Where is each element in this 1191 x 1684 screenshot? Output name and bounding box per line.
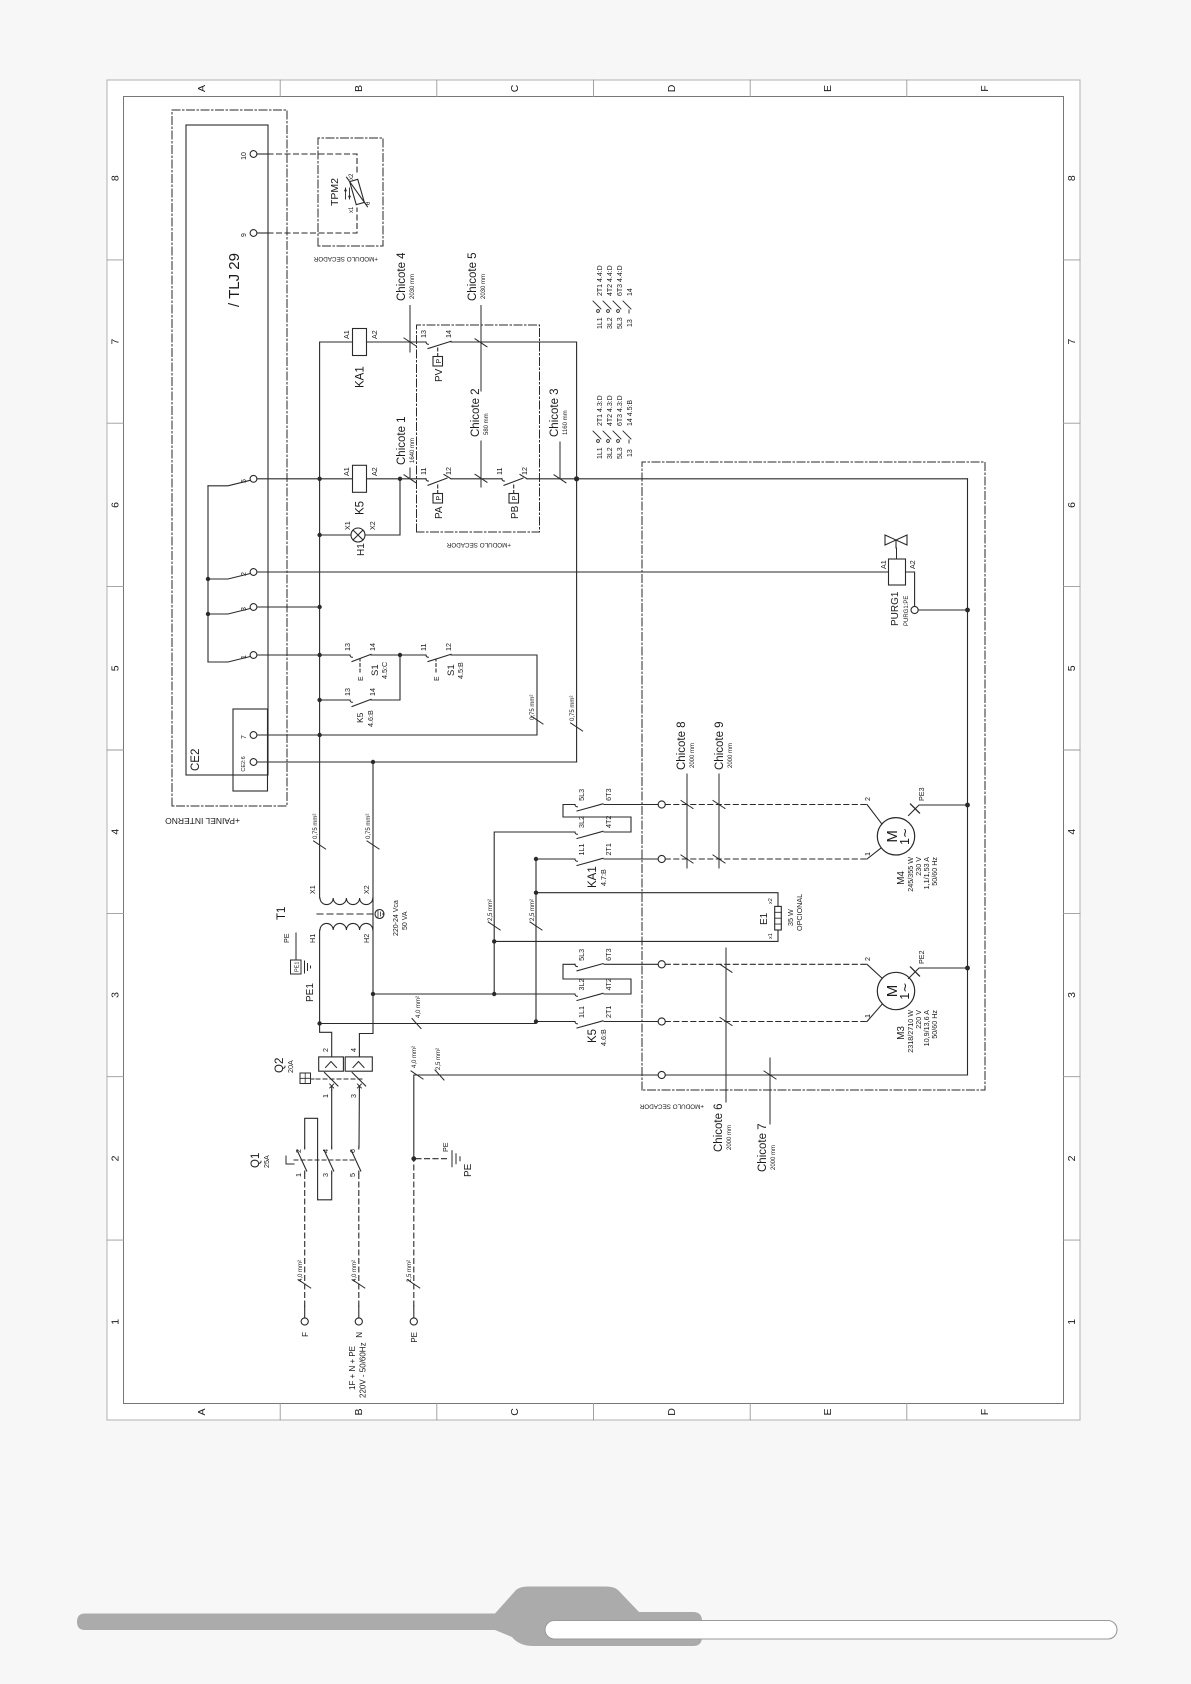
- svg-text:A1: A1: [342, 330, 351, 339]
- svg-text:13: 13: [343, 643, 352, 651]
- node rail junction K5 rung: [317, 477, 321, 481]
- svg-text:+PAINEL INTERNO: +PAINEL INTERNO: [165, 816, 240, 826]
- switch Q1 pole C contact: [351, 1147, 361, 1173]
- wire terminal 3 drop: [257, 606, 320, 608]
- svg-text:P: P: [510, 496, 519, 501]
- svg-text:3: 3: [110, 992, 122, 998]
- svg-text:PURG1: PURG1: [890, 591, 901, 626]
- node PE M4: [965, 803, 970, 808]
- svg-text:3: 3: [321, 1173, 330, 1177]
- svg-text:1L1: 1L1: [577, 1006, 586, 1018]
- svg-text:6T3 4.3:D: 6T3 4.3:D: [617, 395, 624, 426]
- breaker Q2 thermal box pole2: [345, 1057, 372, 1071]
- chicote 4 leader: [404, 306, 416, 353]
- wire terminal 1 drop: [257, 654, 320, 656]
- svg-text:A: A: [196, 85, 208, 92]
- svg-text:KA1: KA1: [355, 366, 367, 388]
- wire gauge 0,75mm2 S1 branch with slash: [531, 716, 543, 724]
- svg-text:4,0 mm²: 4,0 mm²: [416, 996, 422, 1018]
- svg-text:/ TLJ 29: / TLJ 29: [226, 253, 243, 307]
- svg-text:1L1: 1L1: [577, 844, 586, 856]
- wire neutral branch to KA1 pole2: [494, 832, 567, 994]
- svg-text:Chicote 1: Chicote 1: [396, 416, 408, 465]
- svg-text:25A: 25A: [262, 1155, 271, 1168]
- node K5 aux stub: [317, 698, 321, 702]
- svg-text:4T2 4.3:D: 4T2 4.3:D: [607, 395, 614, 426]
- wire Q1 poleC output to Q2: [358, 1090, 360, 1147]
- wire stub M3 pin2: [867, 964, 882, 978]
- wire PE feeder: [414, 1075, 658, 1159]
- dryer module dash-dot box: [642, 462, 985, 1090]
- svg-text:2T1: 2T1: [604, 1006, 613, 1018]
- svg-text:13: 13: [419, 330, 428, 338]
- svg-text:Chicote 8: Chicote 8: [676, 721, 688, 770]
- contact PB arm: [502, 475, 527, 486]
- svg-text:4,0 mm²: 4,0 mm²: [298, 1260, 304, 1282]
- wire K5 rung: [320, 478, 968, 480]
- svg-text:4,0 mm²: 4,0 mm²: [352, 1260, 358, 1282]
- svg-text:x2: x2: [768, 898, 774, 904]
- switch arm terminal 1: [208, 657, 250, 663]
- coil K5: [353, 465, 367, 492]
- svg-text:2: 2: [110, 1155, 122, 1161]
- contact PV arm: [426, 341, 451, 348]
- thermal symbol pole1: [326, 1062, 337, 1068]
- svg-text:PE: PE: [282, 933, 291, 943]
- svg-text:12: 12: [520, 467, 529, 475]
- svg-text:2: 2: [1066, 1155, 1078, 1161]
- svg-text:1L1: 1L1: [597, 447, 604, 459]
- terminal CE2:1: [250, 652, 257, 659]
- chicote 8 leader: [681, 774, 693, 868]
- svg-text:A1: A1: [342, 467, 351, 476]
- contactor KA1 power pole1: [536, 858, 658, 865]
- transformer T1 core dashed: [317, 913, 373, 915]
- svg-text:2,5 mm²: 2,5 mm²: [488, 899, 494, 921]
- svg-text:20A: 20A: [286, 1060, 295, 1073]
- svg-text:H1: H1: [356, 543, 367, 556]
- svg-text:1: 1: [321, 1094, 330, 1098]
- svg-text:2T1 4.3:D: 2T1 4.3:D: [597, 395, 604, 426]
- heater E1 wires: [494, 930, 778, 941]
- svg-text:0,75 mm²: 0,75 mm²: [570, 696, 576, 721]
- wire stub M4 pin2: [867, 805, 882, 824]
- svg-text:5: 5: [110, 665, 122, 671]
- svg-text:50/60 Hz: 50/60 Hz: [930, 857, 939, 886]
- svg-text:2,5 mm²: 2,5 mm²: [530, 899, 536, 921]
- svg-text:11: 11: [419, 468, 428, 475]
- terminal F input: [301, 1318, 308, 1325]
- svg-text:P: P: [434, 496, 443, 501]
- wire dashed terminal 10 to TPM2: [268, 154, 357, 175]
- decorative gray swoosh bar bottom: [77, 1587, 702, 1647]
- ground PE branch dashed: [416, 1158, 448, 1160]
- node phase E1 x2 tap: [534, 891, 538, 895]
- svg-text:5L3: 5L3: [577, 949, 586, 961]
- node K5 A2 junction: [398, 477, 402, 481]
- chicote 2/5 leader: [475, 306, 487, 488]
- node PURG1 PE on bus: [965, 608, 970, 613]
- svg-text:1L1: 1L1: [597, 317, 604, 329]
- svg-text:PB: PB: [510, 505, 521, 519]
- jumper KA1 pole2-pole3: [563, 805, 631, 833]
- svg-text:3L2: 3L2: [577, 816, 586, 828]
- wire gauge 4,0mm2 N with slash: [353, 1280, 365, 1288]
- terminal sub-box CE2:6/7: [233, 709, 268, 791]
- node PE junction: [411, 1156, 416, 1161]
- svg-text:1: 1: [241, 655, 248, 659]
- wire terminal 5 drop: [257, 478, 320, 480]
- node rail junction t7: [317, 733, 321, 737]
- svg-text:35 W: 35 W: [786, 909, 795, 926]
- wire Q1 poleB output to Q2: [331, 1090, 333, 1147]
- terminal N input: [355, 1318, 362, 1325]
- wire PE bus: [967, 479, 969, 1075]
- wire gauge 2,5mm2 PE with slash: [408, 1280, 420, 1288]
- svg-text:KA1: KA1: [587, 866, 599, 888]
- coil KA1: [353, 329, 367, 356]
- switch arm terminal 2: [208, 574, 250, 580]
- wire terminal 2 rung to PURG1: [257, 571, 889, 573]
- svg-text:1: 1: [1066, 1319, 1078, 1325]
- connector circle M3 pin2: [658, 961, 665, 968]
- svg-text:50/60 Hz: 50/60 Hz: [930, 1010, 939, 1039]
- svg-text:6T3: 6T3: [604, 948, 613, 960]
- node S1 lower junction: [398, 653, 402, 657]
- pressure switch P box PV: [433, 357, 443, 367]
- wire 0V bottom rail: [452, 342, 577, 762]
- node rail-PE bond junction: [574, 476, 579, 481]
- breaker Q2 trip linkage dashed: [316, 1078, 363, 1080]
- rotated landscape content: [107, 80, 1080, 1420]
- wire gauge 2,5mm2 PE feeder with slash: [435, 1070, 444, 1080]
- motor M3: [877, 972, 914, 1009]
- svg-text:Chicote 4: Chicote 4: [396, 252, 408, 301]
- node phase KA1 pole1: [534, 857, 538, 861]
- svg-text:14: 14: [627, 288, 634, 296]
- svg-text:6: 6: [1066, 502, 1078, 508]
- svg-text:11: 11: [419, 644, 428, 651]
- thermostat arrows: [344, 188, 351, 199]
- svg-text:2,5 mm²: 2,5 mm²: [436, 1048, 442, 1070]
- pushbutton module dash-dot box: [417, 325, 540, 532]
- contactor K5 power pole3: [575, 964, 658, 971]
- svg-text:4T2: 4T2: [604, 978, 613, 990]
- svg-text:4: 4: [321, 1149, 330, 1153]
- svg-text:580 mm: 580 mm: [484, 413, 490, 435]
- node switch bus junction t2: [206, 577, 210, 581]
- svg-text:1: 1: [863, 1014, 872, 1018]
- switch Q1 linkage dashed: [294, 1159, 357, 1161]
- svg-text:4.7:B: 4.7:B: [599, 869, 608, 886]
- wire stub M3 pin1: [867, 1004, 882, 1021]
- svg-text:1: 1: [294, 1173, 303, 1177]
- wire gauge 2,5mm2 neutral branch with slash: [488, 922, 500, 930]
- svg-text:13: 13: [343, 688, 352, 696]
- svg-text:3L2: 3L2: [577, 979, 586, 991]
- chicote 6 leader: [720, 948, 732, 1102]
- svg-text:10: 10: [241, 152, 248, 160]
- terminal CE2:5: [250, 475, 257, 482]
- svg-text:2: 2: [294, 1149, 303, 1153]
- svg-text:14: 14: [444, 330, 453, 338]
- switch Q1 pole A contact: [297, 1147, 307, 1173]
- svg-text:D: D: [666, 1408, 678, 1416]
- contact S1 13/14 wires: [320, 655, 537, 735]
- pressure switch P box PB: [509, 494, 519, 504]
- svg-text:1640 mm: 1640 mm: [410, 438, 416, 463]
- svg-text:3: 3: [241, 607, 248, 611]
- svg-text:4: 4: [1066, 829, 1078, 835]
- wire neutral common X2-H2-CE2:6: [372, 762, 374, 994]
- node switch bus junction t3: [206, 612, 210, 616]
- wire PURG1 PE drop: [918, 609, 967, 611]
- terminal CE2:2: [250, 569, 257, 576]
- svg-text:2: 2: [321, 1048, 330, 1052]
- wire PE stub M4: [909, 805, 968, 816]
- wire phase horizontal feed: [535, 859, 537, 1024]
- breaker Q2 actuator box: [300, 1073, 311, 1084]
- svg-text:E: E: [822, 1408, 834, 1415]
- wire terminal 7 drop: [257, 734, 320, 736]
- svg-text:4T2 4.4:D: 4T2 4.4:D: [607, 265, 614, 296]
- svg-text:6T3 4.4:D: 6T3 4.4:D: [617, 265, 624, 296]
- wire gauge 4,0mm2 F with slash: [299, 1280, 311, 1288]
- svg-text:2: 2: [863, 797, 872, 801]
- svg-text:11: 11: [495, 468, 504, 475]
- svg-text:X2: X2: [368, 521, 377, 530]
- node neutral at CE2:6 drop: [371, 760, 375, 764]
- jumper K5 pole2-pole3: [563, 964, 631, 994]
- svg-text:PA: PA: [434, 506, 445, 519]
- wire phase H1 feed: [319, 930, 321, 1024]
- svg-text:4.5:B: 4.5:B: [456, 662, 465, 679]
- svg-text:A2: A2: [370, 467, 379, 476]
- svg-text:D: D: [666, 84, 678, 92]
- contact S1 13/14 arm: [350, 654, 371, 661]
- svg-text:2,5 mm²: 2,5 mm²: [407, 1260, 413, 1282]
- svg-text:A2: A2: [370, 330, 379, 339]
- wire PE stub M3: [909, 968, 968, 979]
- frame row dividers left band: [107, 80, 1080, 1420]
- svg-text:4: 4: [349, 1048, 358, 1052]
- thermostat TPM2 body: [347, 174, 368, 210]
- svg-text:12: 12: [444, 467, 453, 475]
- svg-text:12: 12: [444, 643, 453, 651]
- breaker Q2 contact pole1: [325, 1073, 339, 1091]
- svg-text:PE1: PE1: [305, 983, 316, 1002]
- breaker Q2 contact pole2: [352, 1073, 366, 1091]
- contact PA arm: [426, 475, 451, 486]
- wire neutral drop to K5 pole2: [373, 993, 567, 995]
- switch arm terminal 5: [208, 480, 250, 486]
- wire Q2 pin2 to phase node: [320, 1024, 332, 1057]
- svg-text:x1: x1: [349, 206, 355, 213]
- svg-text:1: 1: [863, 852, 872, 856]
- contactor KA1 power pole3: [575, 804, 658, 811]
- svg-text:K5: K5: [355, 501, 367, 515]
- frame column numbers 1-8: [110, 175, 1079, 1325]
- svg-text:1∼: 1∼: [898, 828, 912, 845]
- terminal CE2:3: [250, 604, 257, 611]
- svg-text:3: 3: [1066, 992, 1078, 998]
- switch arm terminal 3: [208, 609, 250, 615]
- svg-text:3L2: 3L2: [607, 317, 614, 329]
- svg-text:2T1 4.4:D: 2T1 4.4:D: [597, 265, 604, 296]
- svg-text:14: 14: [368, 688, 377, 696]
- terminal strip CE2 box: [186, 125, 268, 775]
- svg-text:4,0 mm²: 4,0 mm²: [412, 1046, 418, 1068]
- terminal CE2:7: [250, 732, 257, 739]
- svg-text:+MODULO SECADOR: +MODULO SECADOR: [639, 1103, 704, 1110]
- heater E1 element: [775, 906, 782, 930]
- label M3 data: [896, 1010, 939, 1053]
- svg-text:T1: T1: [276, 907, 288, 920]
- svg-text:PE: PE: [441, 1142, 450, 1152]
- wire Q1 poleA to poleB series link: [305, 1118, 332, 1200]
- contactor K5 power pole1: [536, 1021, 658, 1028]
- thermal symbol pole2: [353, 1062, 364, 1068]
- wire dashed M3 pin1: [665, 1021, 867, 1023]
- svg-text:PE3: PE3: [917, 787, 926, 801]
- svg-text:0,75 mm²: 0,75 mm²: [313, 814, 319, 839]
- contact K5 aux arm: [350, 699, 371, 706]
- svg-text:5: 5: [348, 1173, 357, 1177]
- terminal CE2:9: [250, 230, 257, 237]
- svg-text:A1: A1: [879, 560, 888, 569]
- svg-text:A: A: [196, 1408, 208, 1415]
- svg-text:H1: H1: [308, 934, 317, 943]
- svg-text:+MODULO SECADOR: +MODULO SECADOR: [313, 255, 378, 262]
- inner frame border: [124, 97, 1064, 1404]
- node rail junction t1: [317, 653, 321, 657]
- svg-text:9: 9: [241, 233, 248, 237]
- svg-text:Chicote 2: Chicote 2: [470, 388, 482, 437]
- svg-text:220-24 Vca: 220-24 Vca: [393, 900, 400, 936]
- svg-text:50 VA: 50 VA: [402, 911, 409, 930]
- wire phase drop from Q2: [320, 1023, 536, 1025]
- svg-text:1∼: 1∼: [898, 982, 912, 999]
- wire terminal 10 stub: [257, 153, 268, 155]
- transformer T1 primary winding: [320, 923, 373, 930]
- svg-text:13: 13: [627, 449, 634, 457]
- wire dashed terminal 9 to TPM2: [268, 208, 357, 233]
- node phase K5 pole1: [534, 1019, 538, 1023]
- svg-text:N: N: [355, 1332, 364, 1338]
- svg-text:0,75 mm²: 0,75 mm²: [366, 814, 372, 839]
- svg-text:5L3: 5L3: [617, 447, 624, 459]
- contactor K5 power pole2: [567, 993, 618, 1000]
- svg-text:1: 1: [110, 1319, 122, 1325]
- node neutral E1 x1 tap: [492, 939, 496, 943]
- node rail junction t3: [317, 605, 321, 609]
- breaker Q2 thermal box pole1: [319, 1057, 344, 1071]
- node phase dot Q2: [317, 1021, 321, 1025]
- svg-text:TPM2: TPM2: [329, 178, 341, 206]
- svg-text:CE2:6: CE2:6: [241, 756, 247, 771]
- svg-text:Chicote 5: Chicote 5: [467, 252, 479, 301]
- svg-text:4.5:C: 4.5:C: [380, 662, 389, 679]
- motor M4: [877, 818, 914, 855]
- svg-text:Q2: Q2: [274, 1058, 286, 1073]
- wire terminal 9 stub: [257, 232, 268, 234]
- svg-text:14: 14: [368, 643, 377, 651]
- wire PURG1 A2 to PE terminal: [906, 572, 915, 606]
- svg-text:P: P: [434, 359, 443, 364]
- wire gauge 0,75mm2 rail with slash: [314, 841, 326, 849]
- connector circle M4 pin2: [658, 801, 665, 808]
- svg-text:0,75 mm²: 0,75 mm²: [530, 695, 536, 720]
- wire gauge 0,75mm2 bottom rail with slash: [571, 723, 583, 731]
- svg-text:E: E: [358, 676, 365, 681]
- svg-text:K5: K5: [587, 1029, 599, 1043]
- svg-text:E: E: [822, 85, 834, 92]
- svg-text:6: 6: [110, 502, 122, 508]
- terminal PURG1:PE: [911, 606, 918, 613]
- svg-text:F: F: [979, 1409, 991, 1415]
- svg-text:PE2: PE2: [917, 950, 926, 964]
- terminal CE2:10: [250, 151, 257, 158]
- svg-text:PE: PE: [410, 1332, 419, 1343]
- svg-text:2030 mm: 2030 mm: [410, 274, 416, 299]
- drawing sheet: [107, 80, 1080, 1420]
- svg-text:14 4.5:B: 14 4.5:B: [627, 400, 634, 426]
- svg-text:6: 6: [348, 1149, 357, 1153]
- switch Q1 pole B contact: [324, 1147, 334, 1173]
- wire CE2:6 neutral drop: [257, 761, 577, 763]
- wire stub M4 pin1: [867, 848, 881, 859]
- connector circle M4 pin1: [658, 855, 665, 862]
- svg-text:F: F: [979, 85, 991, 91]
- terminal CE2:6: [250, 759, 257, 766]
- svg-text:5: 5: [1066, 665, 1078, 671]
- internal switch bus wire: [207, 486, 209, 662]
- svg-text:3: 3: [349, 1094, 358, 1098]
- node PE M3: [965, 966, 970, 971]
- svg-text:Q1: Q1: [250, 1153, 262, 1168]
- svg-text:13: 13: [627, 319, 634, 327]
- contact S1 11/12 arm: [426, 654, 451, 661]
- svg-text:PV: PV: [434, 368, 445, 382]
- svg-text:7: 7: [110, 339, 122, 345]
- svg-text:X1: X1: [308, 885, 317, 894]
- wire dashed M4 pin2: [665, 804, 867, 806]
- node rail junction H1: [317, 533, 321, 537]
- svg-text:6T3: 6T3: [604, 788, 613, 800]
- actuator E dashed S1 13/14: [359, 659, 361, 672]
- thermostat module dash-dot box: [318, 138, 383, 246]
- svg-text:C: C: [509, 1408, 521, 1416]
- svg-text:8: 8: [1066, 175, 1078, 181]
- wire gauge 2,5mm2 phase with slash: [530, 922, 542, 930]
- svg-text:H2: H2: [362, 934, 371, 943]
- svg-text:F: F: [301, 1332, 310, 1337]
- svg-text:x2: x2: [349, 173, 355, 180]
- svg-text:3L2: 3L2: [607, 447, 614, 459]
- svg-text:PE: PE: [463, 1163, 474, 1177]
- wire dashed M4 pin1: [665, 858, 867, 860]
- svg-text:E: E: [434, 676, 441, 681]
- terminal PE input: [410, 1318, 417, 1325]
- svg-text:8: 8: [110, 175, 122, 181]
- chicote 1 leader: [404, 468, 416, 483]
- svg-text:2030 mm: 2030 mm: [481, 274, 487, 299]
- pressure switch P box PA: [433, 494, 443, 504]
- svg-text:4.6:B: 4.6:B: [599, 1029, 608, 1046]
- decorative white outlined bar bottom: [545, 1621, 1117, 1640]
- svg-text:2000 mm: 2000 mm: [727, 1125, 733, 1150]
- svg-text:Chicote 7: Chicote 7: [757, 1123, 769, 1172]
